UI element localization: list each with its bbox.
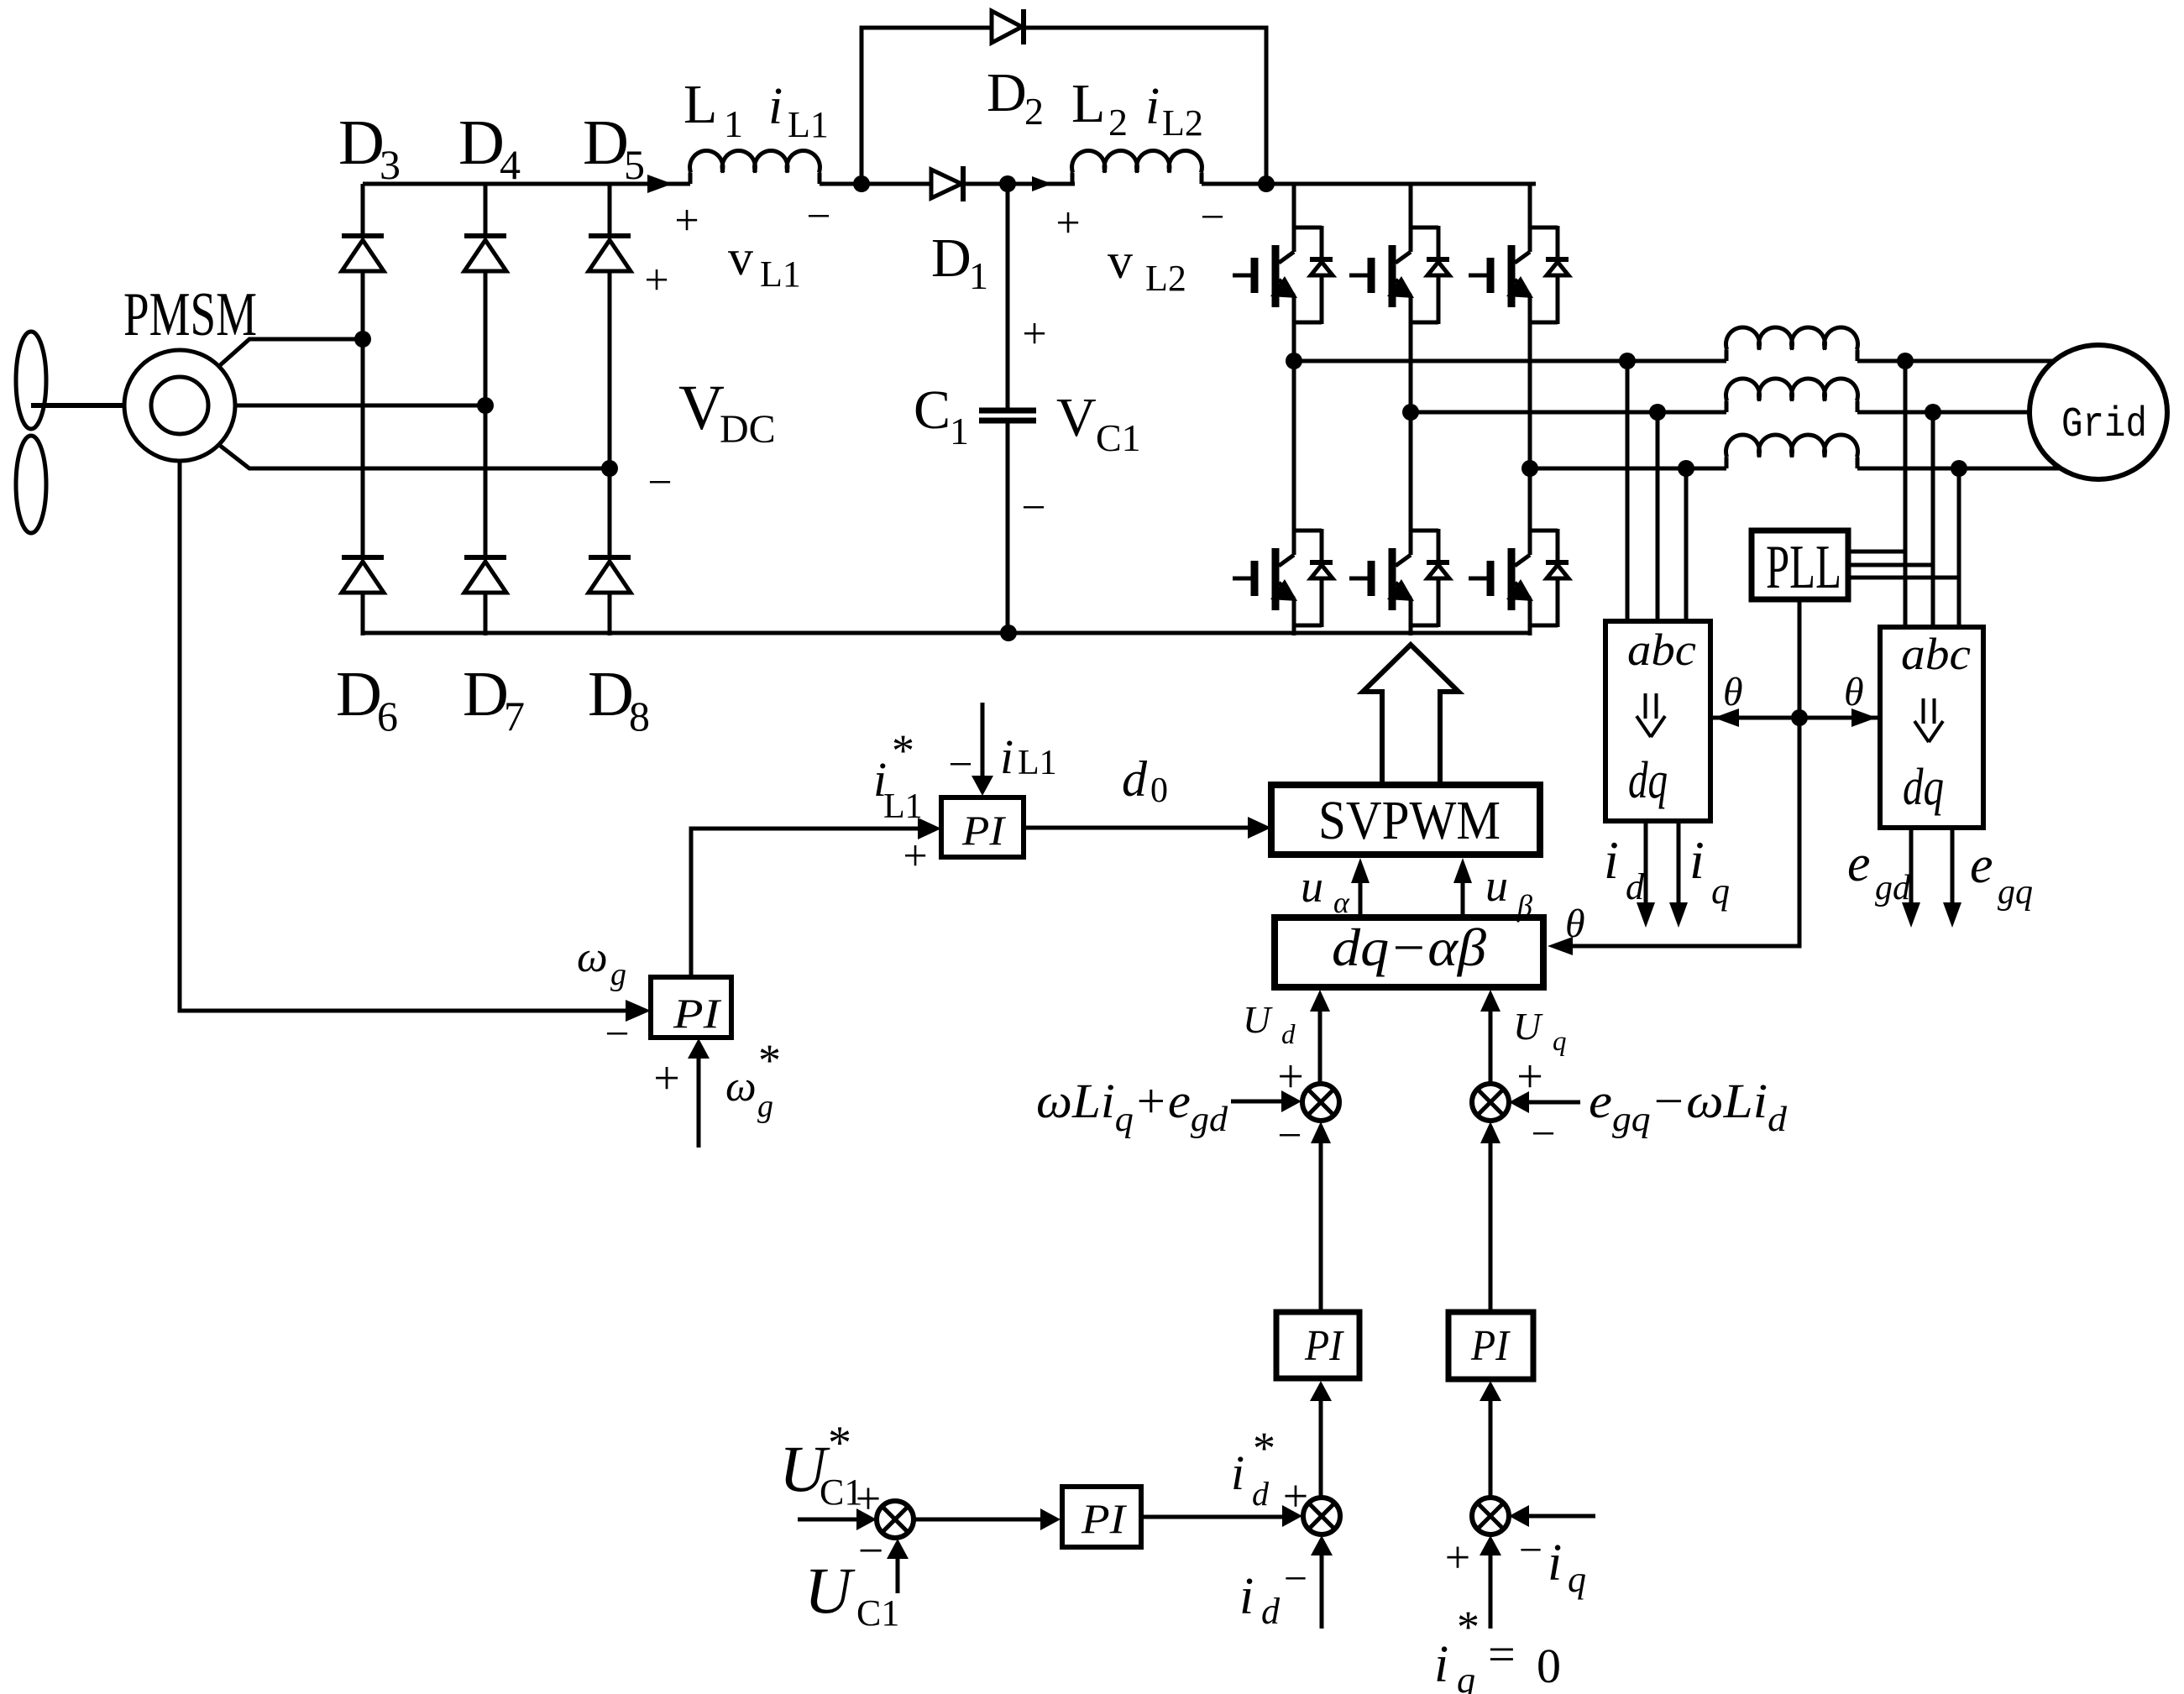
svg-text:U: U — [1243, 998, 1273, 1041]
svg-text:L1: L1 — [760, 254, 801, 295]
svg-text:g: g — [610, 957, 626, 992]
svg-text:*: * — [1457, 1602, 1480, 1652]
svg-text:i: i — [1604, 830, 1619, 890]
svg-text:1: 1 — [969, 254, 988, 297]
svg-text:0: 0 — [1537, 1639, 1561, 1693]
svg-text:−: − — [1531, 1111, 1555, 1158]
IGBT Q6 (lower leg c) — [1469, 529, 1569, 627]
double arrow in right abc-dq — [1914, 698, 1943, 742]
PMSM inner circle — [151, 377, 208, 434]
wire D5-D8 leg middle — [608, 271, 612, 559]
svg-text:gd: gd — [1875, 869, 1911, 907]
svg-text:5: 5 — [624, 141, 645, 188]
svg-text:i: i — [1548, 1535, 1562, 1592]
wire D2 bypass right — [1024, 28, 1266, 184]
svg-text:D: D — [458, 107, 505, 178]
wire D3-D6 leg middle — [361, 271, 365, 559]
turbine shaft wire — [31, 403, 124, 408]
svg-text:−: − — [948, 741, 972, 789]
svg-text:PLL: PLL — [1766, 533, 1841, 602]
svg-text:−: − — [806, 193, 830, 241]
node phase a output — [1286, 353, 1302, 369]
svg-text:1: 1 — [950, 410, 969, 452]
svg-text:abc: abc — [1627, 625, 1696, 675]
svg-text:C1: C1 — [856, 1592, 899, 1634]
svg-text:PI: PI — [1470, 1322, 1511, 1370]
wire L1 to D1 — [820, 182, 931, 186]
arrow into iq* sum — [1509, 1505, 1529, 1527]
arrow Uq — [1480, 990, 1501, 1012]
svg-text:α: α — [1333, 886, 1350, 919]
svg-text:V: V — [678, 373, 725, 443]
svg-text:SVPWM: SVPWM — [1318, 790, 1501, 851]
wire UC1 sum to PI — [914, 1518, 1045, 1522]
svg-text:Grid: Grid — [2061, 401, 2147, 449]
PMSM generator outer circle — [124, 350, 235, 461]
wire phase a to grid — [1857, 359, 2055, 363]
svg-text:8: 8 — [629, 693, 650, 740]
svg-text:+: + — [674, 197, 699, 245]
wind turbine blade lower — [16, 436, 46, 533]
arrow into Ud sum — [1281, 1090, 1301, 1112]
node theta branch — [1791, 709, 1808, 726]
node L1/D2 branch — [853, 175, 870, 192]
arrow into d PI — [1310, 1381, 1332, 1401]
arrow into current PI — [918, 818, 941, 839]
arrow u-beta — [1453, 858, 1472, 883]
wire PLL sense a — [1848, 550, 1905, 554]
arrow rectifier output — [647, 175, 673, 193]
arrow into L2 — [1032, 176, 1052, 191]
wire D3 leg upper — [361, 184, 365, 238]
svg-text:e: e — [1847, 835, 1871, 892]
svg-text:i: i — [1434, 1636, 1448, 1693]
wire iq* sum to q PI — [1489, 1400, 1493, 1498]
svg-text:+: + — [1277, 1051, 1304, 1103]
wire rectifier top rail — [363, 182, 690, 186]
wire phase c to filter — [1530, 467, 1726, 471]
wire iL1* reference — [691, 829, 921, 977]
IGBT Q3 (upper leg b) — [1349, 226, 1449, 324]
arrow egd — [1902, 902, 1920, 928]
block SVPWM — [1271, 785, 1540, 855]
svg-text:ω: ω — [577, 933, 608, 981]
wire speed feedback from PMSM to PI — [180, 461, 632, 1011]
arrow iL1 into PI — [972, 776, 993, 796]
block PLL — [1752, 531, 1848, 599]
filter inductor phase b — [1726, 379, 1858, 412]
arrow theta into dq-ab block — [1548, 937, 1573, 955]
svg-text:2: 2 — [1108, 101, 1128, 144]
svg-text:q: q — [1711, 871, 1730, 912]
wire tap ib — [1656, 412, 1660, 621]
node tap ib — [1649, 404, 1666, 421]
block abc-dq voltage transform — [1880, 627, 1983, 828]
wire id feedback — [1320, 1555, 1324, 1629]
arrow into voltage PI — [1040, 1508, 1061, 1530]
inductor L2 — [1072, 151, 1202, 184]
wire D8 leg lower — [608, 591, 612, 635]
wire phase c to grid — [1857, 467, 2060, 471]
arrow Ud — [1310, 990, 1330, 1012]
inductor L1 — [690, 151, 820, 184]
wire D1 to L2 — [963, 182, 1075, 186]
double arrow in left abc-dq — [1637, 693, 1665, 737]
wire D7 leg lower — [484, 591, 488, 635]
svg-text:V: V — [1056, 387, 1097, 448]
svg-text:L2: L2 — [1162, 102, 1203, 144]
arrow into Ud sum from PI — [1311, 1121, 1331, 1143]
arrow into q PI — [1480, 1381, 1501, 1401]
wire u-alpha — [1359, 878, 1363, 918]
svg-text:q: q — [1457, 1660, 1475, 1694]
svg-text:β: β — [1516, 889, 1532, 923]
wire egd out — [1909, 828, 1914, 905]
block PI q-axis current — [1448, 1312, 1533, 1379]
arrow iq* input — [1480, 1535, 1501, 1555]
wire UC1 ref input — [798, 1518, 858, 1522]
arrow u-alpha — [1351, 858, 1370, 883]
wire phase a to filter — [1294, 359, 1726, 363]
node C1 on bottom rail — [1000, 625, 1017, 641]
capacitor C1 plates — [979, 408, 1036, 414]
arrow id — [1637, 902, 1655, 928]
IGBT Q4 (lower leg b) — [1349, 529, 1449, 627]
wire PLL theta output — [1569, 599, 1799, 946]
svg-text:C: C — [914, 379, 951, 441]
svg-text:D: D — [583, 107, 629, 178]
svg-text:i: i — [1000, 729, 1013, 784]
svg-text:D: D — [588, 659, 634, 729]
svg-text:PI: PI — [1304, 1322, 1344, 1370]
svg-text:PI: PI — [1081, 1495, 1128, 1542]
svg-text:PMSM: PMSM — [123, 280, 257, 349]
svg-text:dq: dq — [1903, 759, 1944, 816]
svg-text:=: = — [1488, 1627, 1516, 1681]
diode D8 — [589, 555, 631, 560]
svg-text:g: g — [757, 1089, 773, 1124]
wire inverter leg a top — [1292, 184, 1296, 229]
arrow UC1 feedback — [887, 1539, 909, 1559]
wire inverter leg a bottom — [1292, 625, 1296, 635]
svg-text:d: d — [1122, 751, 1148, 807]
wire stator phase c — [219, 445, 610, 468]
svg-text:v: v — [1108, 233, 1133, 289]
svg-text:3: 3 — [380, 141, 401, 188]
wire inverter leg c bottom — [1528, 625, 1532, 635]
svg-text:*: * — [892, 725, 914, 776]
wire iq out — [1677, 821, 1681, 905]
summing junction Uq — [1472, 1084, 1509, 1121]
arrow into id* sum — [1282, 1505, 1302, 1527]
wire inverter leg c top — [1528, 184, 1532, 229]
svg-text:D: D — [987, 62, 1027, 123]
svg-text:ω: ω — [725, 1063, 757, 1111]
svg-text:d: d — [1261, 1591, 1281, 1632]
svg-text:d: d — [1281, 1020, 1296, 1050]
wire egq out — [1951, 828, 1955, 905]
svg-text:+: + — [1055, 200, 1080, 248]
arrow d0 — [1248, 817, 1271, 839]
hollow arrow SVPWM to inverter — [1363, 645, 1459, 785]
svg-text:1: 1 — [724, 102, 743, 145]
arrow into Uq sum from PI — [1480, 1121, 1501, 1143]
svg-text:L: L — [683, 74, 717, 135]
svg-text:C1: C1 — [1096, 416, 1141, 459]
svg-text:PI: PI — [673, 990, 722, 1037]
svg-text:C1: C1 — [820, 1472, 862, 1513]
wire inverter leg b top — [1409, 184, 1413, 229]
svg-text:−: − — [1200, 194, 1224, 242]
node tap ec — [1951, 460, 1967, 477]
wire Uq into dq-ab — [1489, 1010, 1493, 1084]
wire tap ec — [1957, 468, 1961, 627]
svg-text:6: 6 — [377, 693, 398, 740]
arrow theta into left abc-dq — [1714, 708, 1739, 727]
block dq-alphabeta — [1275, 918, 1543, 987]
svg-text:D: D — [463, 659, 509, 729]
wire tap ia — [1626, 361, 1630, 621]
node phase c output — [1521, 460, 1538, 477]
svg-text:+: + — [653, 1053, 680, 1105]
summing junction UC1 — [877, 1501, 914, 1538]
block abc-dq current transform — [1605, 621, 1710, 821]
node tap eb — [1925, 404, 1941, 421]
svg-text:v: v — [728, 230, 753, 285]
svg-text:PI: PI — [961, 807, 1007, 854]
node tap ea — [1897, 353, 1914, 369]
svg-text:u: u — [1301, 861, 1323, 912]
wire UC1 feedback — [896, 1558, 900, 1593]
wire iq feedback input — [1526, 1514, 1595, 1519]
svg-text:dq: dq — [1628, 752, 1668, 809]
wire q PI to Uq sum — [1489, 1142, 1493, 1312]
svg-text:*: * — [828, 1417, 851, 1469]
svg-text:q: q — [1568, 1559, 1586, 1600]
svg-text:U: U — [1513, 1005, 1543, 1048]
node bypass rejoin — [1258, 175, 1275, 192]
svg-text:dq−αβ: dq−αβ — [1332, 918, 1486, 977]
arrow egq — [1943, 902, 1961, 928]
diode D1 — [931, 170, 961, 198]
svg-text:i: i — [1231, 1446, 1244, 1500]
wire id* sum to d PI — [1319, 1400, 1323, 1498]
wire C1 bottom — [1006, 422, 1010, 635]
block PI voltage — [1062, 1487, 1141, 1547]
wire dc bottom rail — [363, 631, 1532, 635]
svg-text:i: i — [1689, 830, 1705, 890]
wire D6 leg lower — [361, 591, 365, 635]
svg-text:−: − — [605, 1011, 629, 1059]
arrow iq — [1669, 902, 1688, 928]
svg-text:+: + — [903, 833, 927, 881]
svg-text:q: q — [1553, 1027, 1567, 1057]
svg-text:θ: θ — [1723, 670, 1743, 714]
svg-text:i: i — [768, 78, 783, 135]
wire id* to sum — [1141, 1515, 1283, 1519]
svg-text:+: + — [1516, 1051, 1543, 1103]
wire D2 bypass left — [862, 28, 992, 184]
diode D3 — [342, 233, 384, 238]
svg-text:D: D — [338, 107, 385, 178]
wire D4 leg upper — [484, 184, 488, 238]
wire D4-D7 leg middle — [484, 271, 488, 559]
svg-text:gq: gq — [1998, 873, 2033, 912]
svg-text:*: * — [758, 1035, 781, 1085]
wire L2 to inverter top rail — [1202, 182, 1536, 186]
wire inverter leg b middle — [1409, 322, 1413, 532]
wire feedforward q input — [1526, 1101, 1580, 1105]
grid circle — [2029, 345, 2167, 479]
wire PLL sense c — [1848, 576, 1959, 580]
wire tap ea — [1904, 361, 1908, 627]
node phase a / D3 leg — [354, 331, 371, 348]
wire tap eb — [1931, 412, 1935, 627]
wire inverter leg c middle — [1528, 322, 1532, 532]
svg-text:u: u — [1485, 860, 1508, 911]
filter inductor phase c — [1726, 435, 1858, 468]
IGBT Q5 (upper leg c) — [1469, 226, 1569, 324]
svg-text:−: − — [647, 459, 672, 507]
svg-text:7: 7 — [504, 693, 525, 740]
wire iq* input — [1489, 1555, 1493, 1629]
wire PLL sense b — [1848, 563, 1933, 567]
svg-text:−: − — [1021, 484, 1045, 532]
diode D5 — [589, 233, 631, 238]
svg-text:U: U — [804, 1554, 856, 1627]
summing junction Ud — [1302, 1084, 1339, 1121]
IGBT Q2 (lower leg a) — [1233, 529, 1333, 627]
svg-text:+: + — [644, 257, 668, 305]
node tap ia — [1619, 353, 1636, 369]
svg-text:D: D — [931, 227, 972, 289]
wire inverter leg a middle — [1292, 322, 1296, 532]
svg-text:θ: θ — [1844, 670, 1864, 714]
svg-text:−: − — [1277, 1112, 1301, 1160]
wire Ud into dq-ab — [1318, 1010, 1322, 1084]
node phase b output — [1402, 404, 1419, 421]
svg-text:−: − — [1284, 1555, 1307, 1602]
svg-text:L: L — [1071, 73, 1105, 134]
arrow wg* into PI — [688, 1038, 710, 1059]
wire iL1 feedback — [981, 703, 985, 777]
node tap ic — [1678, 460, 1694, 477]
wind turbine blade upper — [16, 332, 46, 429]
IGBT Q1 (upper leg a) — [1233, 226, 1333, 324]
wire stator phase b — [235, 404, 485, 408]
svg-text:DC: DC — [720, 407, 776, 452]
arrow theta into right abc-dq — [1851, 708, 1877, 727]
svg-text:e: e — [1970, 837, 1993, 894]
svg-text:d: d — [1626, 866, 1645, 907]
wire C1 top — [1006, 184, 1010, 410]
wire stator phase a — [219, 339, 363, 366]
svg-text:*: * — [1253, 1423, 1275, 1473]
summing junction iq* — [1472, 1498, 1509, 1535]
svg-text:i: i — [1145, 78, 1160, 135]
svg-text:i: i — [1239, 1568, 1254, 1625]
node D1/C1 — [999, 175, 1016, 192]
node phase b / D4 leg — [477, 397, 494, 414]
filter inductor phase a — [1726, 327, 1858, 361]
diode D4 — [464, 233, 506, 238]
diode D2 — [992, 11, 1022, 43]
wire tap ic — [1684, 468, 1689, 621]
wire wg* input — [697, 1054, 701, 1148]
node phase c / D5 leg — [601, 460, 618, 477]
svg-text:+: + — [1022, 311, 1046, 358]
arrow into Uq sum — [1509, 1091, 1529, 1113]
svg-text:d: d — [1252, 1475, 1270, 1513]
block PI speed — [651, 977, 731, 1038]
svg-text:−: − — [1519, 1526, 1542, 1573]
wire feedforward d input — [1231, 1100, 1283, 1104]
wire inverter leg b bottom — [1409, 625, 1413, 635]
svg-text:abc: abc — [1901, 629, 1971, 679]
svg-text:L1: L1 — [1018, 744, 1057, 782]
svg-text:L2: L2 — [1145, 258, 1186, 299]
wire phase b to grid — [1857, 410, 2030, 415]
block PI d-axis current — [1276, 1312, 1359, 1378]
svg-text:0: 0 — [1150, 771, 1168, 810]
wire id out — [1644, 821, 1648, 905]
wire theta to abc-dq blocks — [1712, 716, 1878, 720]
svg-text:−: − — [858, 1525, 883, 1576]
diode D7 — [464, 555, 506, 560]
arrow speed into PI — [626, 1000, 651, 1022]
wire u-beta — [1461, 878, 1465, 918]
diode D6 — [342, 555, 384, 560]
svg-text:+: + — [1445, 1532, 1470, 1582]
svg-text:2: 2 — [1024, 90, 1044, 133]
summing junction id* — [1303, 1498, 1340, 1535]
wire D5 leg upper — [608, 184, 612, 238]
arrow id feedback — [1311, 1535, 1333, 1555]
wire d PI to Ud sum — [1319, 1142, 1323, 1312]
arrow into UC1 sum — [856, 1508, 877, 1530]
svg-text:L1: L1 — [883, 787, 923, 826]
svg-text:+: + — [1283, 1471, 1308, 1521]
svg-text:L1: L1 — [788, 104, 829, 145]
svg-text:D: D — [336, 659, 382, 729]
wire phase b to filter — [1411, 410, 1726, 415]
block PI iL1 current — [941, 797, 1024, 857]
svg-text:θ: θ — [1565, 902, 1585, 946]
svg-text:4: 4 — [500, 141, 521, 188]
wire d0 into SVPWM — [1024, 826, 1250, 830]
